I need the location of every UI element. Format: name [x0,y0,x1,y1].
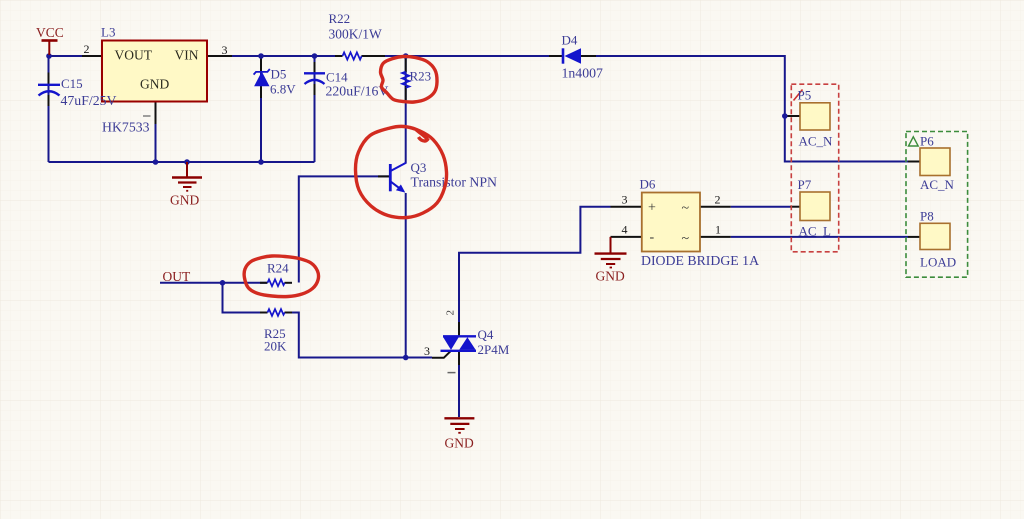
pin Q3 base [378,175,390,177]
pin R23 top [405,56,407,72]
svg-text:AC_N: AC_N [799,134,834,149]
svg-text:2: 2 [715,193,721,207]
junction at VCC node [46,53,52,59]
pin D4 right [581,55,596,57]
svg-text:R23: R23 [410,69,432,84]
junction at P5 node [782,113,788,119]
svg-text:L3: L3 [101,25,115,40]
wire L3 GND pin vertical [155,102,157,162]
pin D6.1 [700,236,731,238]
resistor R24 [267,261,289,287]
red annotation circle around R24 [244,256,318,297]
no-ERC marker at P5 [794,90,803,101]
VCC power symbol [36,25,64,55]
wire Q3 emitter vertical [405,193,407,358]
pin R22 right [362,55,386,57]
svg-text:GND: GND [170,193,199,208]
svg-text:D5: D5 [271,67,287,82]
wire bottom rail of regulator stage [49,161,315,163]
svg-text:220uF/16V: 220uF/16V [326,84,389,99]
wire R24 row [223,282,268,284]
connector P5 [800,103,830,130]
connector P8 [920,223,950,249]
ground symbol (Q4) [444,418,474,450]
svg-text:3: 3 [222,43,228,57]
red annotation circle around Q3 [355,126,446,217]
junction at D5 bottom node [258,159,264,165]
svg-text:2: 2 [445,310,457,316]
zener diode D5 [254,67,297,97]
transistor Q3 NPN [390,160,497,193]
pin Q4 anode top [458,322,460,336]
compile mask triangle at P6 [909,137,919,146]
connector P7 [800,192,830,221]
wire D5 branch vertical [260,56,262,162]
svg-text:HK7533: HK7533 [102,120,150,135]
pin R24 right [285,282,293,284]
svg-text:R24: R24 [267,261,289,276]
pin D6.2 [700,206,731,208]
pin D5 top [260,56,262,71]
svg-text:GND: GND [445,436,474,451]
svg-text:-: - [650,230,655,245]
pin Q4 gate [432,351,451,358]
pin L3.1 GND [155,102,157,124]
pin D4 left [549,55,563,57]
svg-text:D6: D6 [640,177,656,192]
svg-text:VCC: VCC [36,25,64,40]
svg-text:AC_N: AC_N [920,177,955,192]
svg-text:3: 3 [424,344,430,358]
ground symbol (D6 pin4) [595,237,627,284]
wire top rail R22 to R23 junction [362,55,406,57]
pin D6.4 [611,236,642,238]
svg-text:4: 4 [622,223,628,237]
wire junction down to R25 row [223,283,268,313]
pin D5 bottom [260,86,262,98]
pin R22 left [335,55,343,57]
pin P7 [790,206,800,208]
pin P8 [908,236,920,238]
capacitor C15 [38,76,116,108]
pin D6.3 [611,206,642,208]
junction at Q4 gate node [403,355,409,361]
connector P6 [920,148,950,176]
red annotation circle around R23 [380,56,437,102]
svg-text:P7: P7 [798,177,812,192]
svg-text:VIN: VIN [175,48,199,63]
resistor R25 [264,309,287,353]
pin P6 [908,161,920,163]
pin C15 top [48,73,50,85]
pin R25 right [285,312,293,314]
pin R25 left [260,312,268,314]
svg-text:P5: P5 [798,88,812,103]
diode D4 [562,33,603,81]
wire top rail R23 junction to D4 [406,55,563,57]
svg-text:Q4: Q4 [478,327,494,342]
pin number 1 (Q4 bottom, rotated) [448,372,456,374]
junction at L3 GND bottom node [153,159,159,165]
junction at C14 top node [312,53,318,59]
svg-text:GND: GND [140,77,169,92]
pin C15 bottom [48,95,50,106]
svg-text:Q3: Q3 [411,160,427,175]
svg-text:1: 1 [715,223,721,237]
wire R25 to Q4 gate row [285,313,406,358]
pin R24 left [260,282,268,284]
resistor R23 (vertical) [402,69,431,88]
svg-text:1n4007: 1n4007 [562,66,603,81]
svg-text:DIODE BRIDGE 1A: DIODE BRIDGE 1A [641,253,759,268]
wire R23 to Q3 collector vertical [405,56,407,164]
svg-text:C15: C15 [61,76,83,91]
svg-text:C14: C14 [326,70,348,85]
svg-text:P8: P8 [920,209,934,224]
resistor R22 [329,11,383,60]
junction at GND symbol node [184,159,190,165]
wire D6 pin2 to P7 [731,206,790,208]
pin Q4 cathode bottom [458,351,460,365]
svg-text:2: 2 [84,42,90,56]
svg-text:VOUT: VOUT [115,48,153,63]
capacitor C14 [304,70,388,99]
wire Q4 cathode to GND [458,364,460,417]
svg-text:GND: GND [596,269,625,284]
svg-text:Transistor NPN: Transistor NPN [411,175,498,190]
svg-text:LOAD: LOAD [920,255,956,270]
junction at R23 top node [403,53,409,59]
green dashed group box around P6 P8 [906,132,968,278]
svg-text:47uF/25V: 47uF/25V [61,93,117,108]
ground symbol (regulator stage) [170,162,202,208]
svg-text:D4: D4 [562,33,578,48]
wire D6 pin1 to P8 [731,236,908,238]
wire C14 branch vertical [314,56,316,162]
svg-text:R22: R22 [329,11,351,26]
wire C15 branch vertical [48,56,50,162]
pin L3.2 [82,55,102,57]
svg-text:AC_L: AC_L [799,224,832,239]
svg-text:300K/1W: 300K/1W [329,27,383,42]
svg-text:~: ~ [682,232,690,247]
svg-text:+: + [648,201,656,216]
pin L3.3 [207,55,232,57]
wire D6 pin3 routing to Q4 anode [459,207,611,322]
pin P5 [785,115,800,117]
wire OUT to R24 junction [160,282,223,284]
red dashed group box around P5 P7 [791,84,838,252]
svg-text:3: 3 [622,193,628,207]
wire top rail from VCC junction to R22 [49,55,343,57]
junction at D5 top node [258,53,264,59]
wire top rail D4 to right corner, down to AC_N row [581,56,908,162]
triac Q4 [441,327,510,357]
wire Q3 base to R24 node [299,176,389,282]
regulator U L3 body [102,41,207,102]
diode bridge D6 body [642,193,700,252]
svg-text:~: ~ [682,201,690,216]
svg-text:6.8V: 6.8V [270,82,296,97]
junction at OUT / R24 node [220,280,226,286]
pin C14 bottom [314,84,316,95]
wire gate junction to Q4 [406,357,432,359]
pin number 1 of L3 (rotated) [143,115,151,117]
pin R23 bottom [405,86,407,100]
pin C14 top [314,62,316,73]
svg-text:20K: 20K [264,339,287,354]
svg-text:2P4M: 2P4M [478,342,510,357]
svg-text:OUT: OUT [163,269,191,284]
svg-text:P6: P6 [920,134,934,149]
